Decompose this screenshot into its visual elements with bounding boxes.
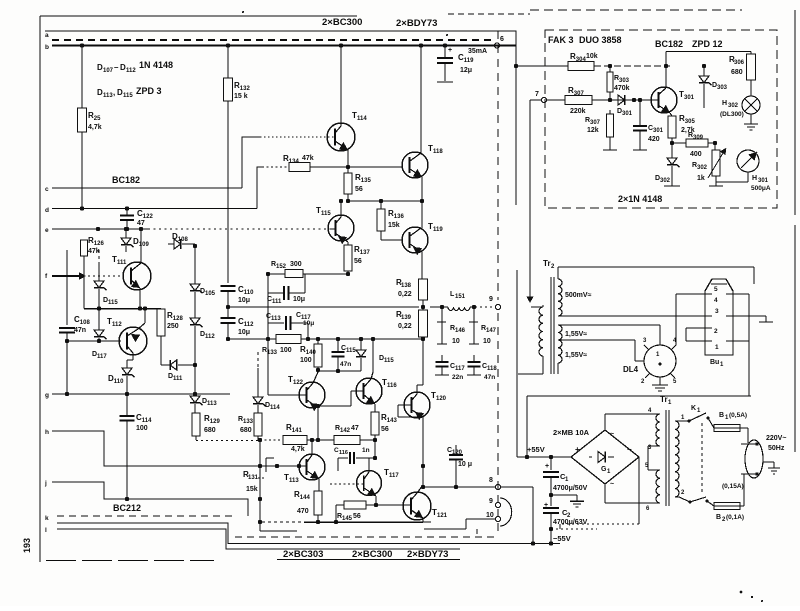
svg-text:470k: 470k bbox=[614, 85, 630, 92]
svg-text:Bu: Bu bbox=[710, 359, 719, 366]
svg-text:10: 10 bbox=[483, 338, 491, 345]
svg-text:112: 112 bbox=[126, 68, 136, 74]
label Tr2 bbox=[543, 259, 555, 270]
svg-text:680: 680 bbox=[204, 427, 216, 434]
svg-text:0,22: 0,22 bbox=[398, 323, 412, 330]
svg-text:470: 470 bbox=[297, 508, 309, 515]
wire row c bbox=[52, 187, 242, 189]
bridge rectifier bbox=[553, 428, 639, 484]
svg-text:680: 680 bbox=[731, 69, 743, 76]
svg-text:47n: 47n bbox=[340, 361, 351, 368]
psu mid ground bbox=[551, 495, 584, 507]
text zener equivalence bbox=[97, 86, 162, 99]
diode D111 bbox=[161, 352, 197, 382]
row label d bbox=[45, 207, 49, 214]
svg-text:12μ: 12μ bbox=[460, 67, 472, 74]
svg-text:j: j bbox=[44, 480, 47, 487]
svg-text:h: h bbox=[45, 429, 49, 436]
zener D109 bbox=[121, 227, 149, 252]
wire R304 right bbox=[594, 64, 670, 68]
node 9 circle jack bbox=[489, 498, 501, 508]
wire row j bbox=[52, 482, 248, 516]
label 2xBDY73 top bbox=[396, 18, 437, 29]
svg-text:56: 56 bbox=[353, 513, 361, 520]
svg-text:~: ~ bbox=[610, 481, 614, 488]
lamp H302 ground bbox=[744, 114, 758, 130]
wire row k2 bbox=[57, 523, 560, 544]
resistor R135 bbox=[344, 167, 371, 203]
svg-text:2×BC303: 2×BC303 bbox=[283, 549, 323, 560]
transformer Tr2 secondary2 bbox=[558, 325, 562, 363]
svg-text:10μ: 10μ bbox=[238, 297, 250, 304]
label 155V a bbox=[565, 331, 587, 338]
svg-text:k: k bbox=[45, 515, 49, 522]
node 8 circle bbox=[495, 484, 500, 489]
wire T112 collector down bbox=[127, 359, 133, 361]
transistor T117b bbox=[357, 468, 400, 496]
transistor T114 leads bbox=[260, 113, 348, 150]
svg-text:(0,1A): (0,1A) bbox=[726, 514, 744, 521]
svg-text:56: 56 bbox=[355, 186, 363, 193]
svg-text:111: 111 bbox=[173, 376, 183, 382]
zener D302 bbox=[655, 143, 680, 186]
transistor T113b leads bbox=[297, 438, 319, 479]
wire Bu pin5 wire bbox=[676, 294, 698, 345]
wire T120 base bbox=[398, 405, 423, 417]
svg-text:FAK 3: FAK 3 bbox=[548, 35, 574, 45]
transistor T118 bbox=[402, 144, 443, 178]
svg-text:4700μ/63V: 4700μ/63V bbox=[553, 519, 588, 526]
text underline bbox=[277, 559, 460, 561]
svg-text:2×1N 4148: 2×1N 4148 bbox=[618, 194, 662, 204]
wire node10 bbox=[424, 519, 495, 529]
svg-text:+: + bbox=[448, 47, 452, 54]
wire y339 rail bbox=[228, 337, 276, 341]
switch K1 bbox=[679, 405, 710, 423]
resistor R309 bbox=[686, 132, 717, 158]
transistor T112 bbox=[107, 317, 147, 355]
svg-text:H: H bbox=[722, 100, 727, 107]
capacitor C116 bbox=[334, 440, 377, 471]
dashed fold line bbox=[497, 31, 499, 534]
resistor R144 bbox=[294, 490, 322, 524]
svg-text:400: 400 bbox=[690, 151, 702, 158]
diode D301 bbox=[614, 95, 652, 117]
resistor R308 bbox=[585, 110, 617, 150]
svg-text:7: 7 bbox=[535, 91, 539, 98]
svg-text:116: 116 bbox=[387, 383, 397, 389]
svg-text:2×MB 10A: 2×MB 10A bbox=[553, 428, 590, 437]
svg-text:115: 115 bbox=[321, 211, 331, 217]
wire R132 down long bbox=[227, 101, 229, 283]
capacitor C111 bbox=[267, 274, 305, 305]
svg-text:10: 10 bbox=[452, 338, 460, 345]
wire DL4 to bus bbox=[671, 345, 676, 350]
svg-text:4,7k: 4,7k bbox=[88, 124, 102, 131]
wire node7 bbox=[526, 100, 565, 303]
transistor T117b leads bbox=[330, 458, 376, 496]
row label c bbox=[45, 186, 49, 193]
svg-text:131: 131 bbox=[248, 475, 259, 481]
svg-text:113: 113 bbox=[103, 93, 113, 99]
transformer Tr1 core bbox=[666, 410, 669, 506]
row label f bbox=[45, 273, 48, 280]
row label g bbox=[45, 392, 49, 399]
svg-text:1N 4148: 1N 4148 bbox=[139, 60, 173, 70]
wire y307 output rail bbox=[228, 305, 425, 309]
svg-text:l: l bbox=[45, 527, 47, 534]
svg-text:2×BDY73: 2×BDY73 bbox=[396, 18, 437, 29]
capacitor C118 bbox=[467, 355, 497, 381]
svg-text:1,55V≈: 1,55V≈ bbox=[565, 352, 587, 359]
capacitor C114 bbox=[120, 394, 153, 501]
wire long y396 bbox=[527, 396, 751, 457]
svg-text:107: 107 bbox=[103, 68, 114, 74]
wire T121 collector bbox=[421, 417, 425, 489]
svg-text:47: 47 bbox=[351, 425, 359, 432]
wire +rail down bbox=[516, 66, 517, 457]
wire D-chain top bbox=[193, 244, 197, 284]
svg-text:147: 147 bbox=[486, 328, 497, 334]
resistor R132 bbox=[224, 78, 251, 101]
transformer Tr1 sec bottom bbox=[645, 463, 660, 512]
wire emitter bus bbox=[262, 521, 423, 523]
connector Bu label bbox=[710, 359, 724, 368]
wire feedback node bbox=[266, 272, 348, 276]
svg-text:111: 111 bbox=[117, 260, 127, 266]
svg-text:B: B bbox=[719, 412, 724, 419]
svg-text:117: 117 bbox=[97, 354, 107, 360]
svg-text:+55V: +55V bbox=[527, 445, 545, 454]
svg-text:9: 9 bbox=[489, 498, 493, 505]
wire f to T111 base bbox=[79, 272, 121, 280]
svg-text:142: 142 bbox=[340, 428, 351, 434]
wire row l bbox=[57, 529, 460, 549]
wire Tr2 top out bbox=[558, 267, 754, 277]
transformer Tr2 core bbox=[551, 277, 554, 374]
wire T118 emitter bbox=[420, 177, 424, 228]
transistor T122 leads bbox=[268, 372, 319, 411]
wire row d bbox=[52, 208, 257, 210]
capacitor C1 bbox=[543, 457, 588, 497]
svg-text:b: b bbox=[45, 44, 49, 51]
svg-text:15k: 15k bbox=[388, 222, 400, 229]
wire Tr2 tap1 bbox=[558, 315, 698, 317]
svg-text:35mA: 35mA bbox=[468, 48, 487, 55]
transistor T121 bbox=[403, 492, 448, 520]
svg-text:302: 302 bbox=[660, 178, 671, 184]
svg-text:BC182: BC182 bbox=[655, 39, 683, 49]
svg-text:10μ: 10μ bbox=[238, 329, 250, 336]
svg-text:9: 9 bbox=[489, 296, 493, 303]
potentiometer R302 bbox=[692, 143, 726, 186]
svg-text:(DL300): (DL300) bbox=[720, 111, 744, 118]
wire y201 bbox=[348, 200, 422, 202]
capacitor C112 bbox=[221, 317, 255, 341]
wire row g bbox=[52, 393, 230, 395]
wire x260 vertical bbox=[258, 440, 297, 531]
svg-text:113: 113 bbox=[207, 401, 217, 407]
svg-text:1,55V≈: 1,55V≈ bbox=[565, 331, 587, 338]
svg-text:0,22: 0,22 bbox=[398, 291, 412, 298]
label +55V bbox=[527, 445, 545, 454]
label 220V bbox=[766, 435, 786, 452]
wire D112 down bbox=[194, 340, 196, 396]
resistor R129 bbox=[192, 413, 220, 440]
svg-text:120: 120 bbox=[452, 450, 463, 456]
connector Bu pins bbox=[698, 284, 755, 351]
label Tr1 bbox=[660, 395, 672, 406]
svg-text:116: 116 bbox=[339, 450, 348, 456]
capacitor C122 bbox=[120, 206, 153, 231]
svg-text:112: 112 bbox=[112, 322, 122, 328]
svg-text:B: B bbox=[716, 514, 721, 521]
transistor T301 leads bbox=[652, 64, 670, 113]
svg-text:500μA: 500μA bbox=[751, 185, 771, 192]
wire bridge minus dotted bbox=[551, 528, 597, 530]
resistor R142 bbox=[334, 425, 375, 445]
lamp H302 bbox=[720, 96, 760, 118]
mains plug bbox=[741, 440, 763, 478]
svg-text:g: g bbox=[45, 392, 49, 399]
transistor T114 bbox=[327, 111, 367, 151]
svg-text:BC212: BC212 bbox=[113, 503, 141, 513]
svg-text:DUO 3858: DUO 3858 bbox=[579, 35, 622, 45]
resistor R303 bbox=[607, 66, 630, 102]
transistor T120 leads bbox=[404, 340, 424, 420]
svg-text:119: 119 bbox=[433, 227, 443, 233]
svg-text:15 k: 15 k bbox=[234, 93, 248, 100]
capacitor C120 bbox=[447, 445, 472, 489]
inductor L151 bbox=[430, 291, 495, 311]
svg-text:50Hz: 50Hz bbox=[768, 445, 785, 452]
svg-text:307: 307 bbox=[590, 120, 601, 126]
label BC182 bbox=[112, 175, 140, 185]
svg-text:145: 145 bbox=[342, 516, 353, 522]
svg-text:420: 420 bbox=[648, 136, 660, 143]
bridge plus minus bbox=[575, 431, 632, 488]
wire base bus T118 bbox=[348, 166, 403, 168]
svg-text:302: 302 bbox=[697, 165, 708, 171]
svg-text:309: 309 bbox=[693, 135, 704, 141]
svg-text:56: 56 bbox=[354, 258, 362, 265]
svg-text:Tr: Tr bbox=[660, 395, 668, 404]
resistor R137 bbox=[344, 242, 370, 276]
scan specks bbox=[242, 11, 763, 602]
svg-text:e: e bbox=[45, 227, 49, 234]
svg-text:22n: 22n bbox=[452, 374, 463, 381]
svg-text:+: + bbox=[545, 463, 549, 470]
svg-text:6: 6 bbox=[500, 36, 504, 43]
node 7 circle bbox=[535, 91, 547, 103]
svg-text:10 μ: 10 μ bbox=[458, 461, 472, 468]
label BC212 bbox=[113, 503, 141, 513]
connector Bu outline bbox=[705, 279, 733, 355]
svg-text:ZPD 12: ZPD 12 bbox=[692, 39, 723, 49]
svg-text:115: 115 bbox=[108, 300, 118, 306]
resistor R134 bbox=[262, 154, 348, 172]
svg-text:(0,5A): (0,5A) bbox=[729, 412, 747, 419]
wire c riser bbox=[242, 137, 260, 188]
wire R132 top bbox=[226, 43, 230, 78]
svg-text:680: 680 bbox=[240, 427, 252, 434]
node 9 mid circle bbox=[489, 296, 501, 310]
wire row f terminal bbox=[52, 275, 80, 277]
svg-text:117: 117 bbox=[455, 366, 465, 372]
svg-text:138: 138 bbox=[401, 283, 412, 289]
svg-text:47n: 47n bbox=[74, 327, 86, 334]
svg-text:47k: 47k bbox=[88, 248, 100, 255]
svg-text:4,7k: 4,7k bbox=[291, 446, 305, 453]
resistor R145 bbox=[334, 501, 404, 524]
meter box dashed bbox=[545, 30, 777, 208]
zener D112 bbox=[190, 318, 215, 340]
svg-text:151: 151 bbox=[455, 294, 466, 300]
svg-text:2×BC300: 2×BC300 bbox=[322, 17, 362, 28]
wire Bu right side bbox=[727, 267, 773, 341]
wire T114 collector bbox=[339, 43, 343, 113]
row label l bbox=[45, 527, 47, 534]
resistor R146 bbox=[437, 305, 466, 345]
resistor R147 bbox=[469, 305, 497, 345]
svg-text:306: 306 bbox=[734, 60, 745, 66]
label 2xBC303 bottom bbox=[283, 549, 323, 560]
wire row b bbox=[52, 44, 516, 46]
svg-text:100: 100 bbox=[280, 347, 292, 354]
svg-text:100: 100 bbox=[300, 357, 312, 364]
capacitor C2 bbox=[543, 495, 588, 531]
row label a bbox=[45, 32, 49, 39]
resistor R133b bbox=[238, 405, 262, 440]
svg-text:146: 146 bbox=[455, 328, 466, 334]
svg-text:−55V: −55V bbox=[553, 534, 571, 543]
wire row k dashed bbox=[57, 516, 497, 537]
wire Tr2 tap2 bbox=[558, 325, 660, 343]
wire T114 emitter bbox=[346, 150, 350, 169]
wire node8 to rail bbox=[501, 487, 535, 546]
resistor R307 bbox=[565, 86, 650, 115]
row label b bbox=[45, 44, 49, 51]
wire R25 bottom bbox=[80, 132, 84, 211]
svg-text:300: 300 bbox=[290, 261, 302, 268]
tube DL4 bbox=[623, 345, 676, 377]
svg-text:111: 111 bbox=[272, 299, 282, 305]
inner top line bbox=[45, 31, 516, 46]
svg-text:301: 301 bbox=[758, 178, 769, 184]
svg-text:8: 8 bbox=[489, 477, 493, 484]
wire T121 emitter bbox=[423, 518, 431, 522]
svg-text:115: 115 bbox=[346, 348, 356, 354]
resistor R152 bbox=[271, 261, 303, 278]
wire row h bbox=[52, 431, 299, 468]
transistor T116 bbox=[356, 378, 397, 404]
svg-text:301: 301 bbox=[653, 128, 664, 134]
svg-text:3: 3 bbox=[715, 308, 719, 315]
wire T111 collector bbox=[139, 227, 143, 250]
svg-text:1k: 1k bbox=[697, 175, 705, 182]
transformer Tr1 primary bbox=[675, 415, 685, 497]
capacitor C117 bbox=[435, 355, 465, 381]
svg-text:56: 56 bbox=[381, 426, 389, 433]
resistor R139 bbox=[396, 310, 428, 341]
transistor T113b bbox=[284, 454, 325, 484]
svg-text:114: 114 bbox=[357, 116, 367, 122]
svg-text:2: 2 bbox=[714, 328, 718, 335]
fuse B1 bbox=[708, 412, 748, 443]
wire Bu pin2 wire bbox=[686, 328, 698, 341]
resistor R133 bbox=[262, 335, 423, 357]
bridge diode symbol bbox=[589, 452, 614, 476]
transistor T119 bbox=[402, 222, 443, 253]
wire b to +rail bbox=[500, 46, 518, 69]
wire node6 to R304 bbox=[516, 65, 568, 67]
label 155V b bbox=[565, 352, 587, 359]
resistor R128 bbox=[157, 309, 183, 352]
label 2xBDY73 bottom bbox=[407, 549, 448, 560]
svg-text:,: , bbox=[113, 88, 115, 97]
svg-text:301: 301 bbox=[684, 95, 695, 101]
svg-text:113: 113 bbox=[289, 478, 299, 484]
transistor T111 leads bbox=[131, 250, 141, 309]
svg-text:220k: 220k bbox=[570, 108, 586, 115]
label 015A bbox=[722, 483, 744, 490]
svg-text:ZPD 3: ZPD 3 bbox=[136, 86, 162, 96]
svg-text:47n: 47n bbox=[484, 374, 495, 381]
label FAK3 DUO3858 bbox=[548, 35, 622, 45]
label 500mV bbox=[565, 292, 592, 299]
svg-text:152: 152 bbox=[276, 264, 287, 270]
svg-text:+: + bbox=[575, 445, 580, 454]
wire emitter rail y308 bbox=[84, 306, 161, 310]
switch K1 dashed link bbox=[701, 423, 703, 495]
svg-text:113: 113 bbox=[271, 316, 281, 322]
border frame top solid bbox=[40, 15, 357, 17]
resistor R126 bbox=[81, 236, 105, 309]
border frame top dashed bbox=[448, 10, 742, 14]
label 2x1N4148 in box bbox=[618, 194, 662, 204]
zener D113 bbox=[190, 392, 217, 413]
resistor R305 bbox=[668, 113, 695, 145]
svg-text:10μ: 10μ bbox=[293, 296, 305, 303]
svg-text:112: 112 bbox=[205, 334, 215, 340]
wire R128 top bbox=[160, 308, 162, 311]
zener D110 bbox=[108, 360, 135, 396]
svg-text:12k: 12k bbox=[587, 127, 599, 134]
wire +rail to bridge bbox=[517, 455, 571, 459]
label -55V bbox=[553, 534, 571, 543]
svg-text:−: − bbox=[627, 445, 632, 454]
label 2xBC300 bottom bbox=[352, 549, 392, 560]
resistor R143 bbox=[371, 404, 397, 442]
mains ground bbox=[763, 462, 780, 474]
diode D108 bbox=[168, 232, 195, 249]
svg-text:120: 120 bbox=[436, 396, 447, 402]
wire R131 area bbox=[243, 458, 274, 493]
svg-text:47k: 47k bbox=[302, 155, 314, 162]
svg-text:193: 193 bbox=[22, 538, 32, 553]
transformer Tr1 sec top bbox=[648, 408, 660, 451]
wire fb down bbox=[267, 274, 269, 395]
resistor R306 bbox=[729, 54, 756, 96]
svg-text:2×BC300: 2×BC300 bbox=[352, 549, 392, 560]
node 6 circle bbox=[494, 36, 504, 48]
capacitor C110 bbox=[221, 285, 255, 318]
resistor R141 bbox=[283, 423, 334, 453]
zener D117 bbox=[92, 309, 107, 361]
label 35mA bbox=[468, 48, 487, 55]
svg-text:115: 115 bbox=[123, 93, 133, 99]
svg-text:301: 301 bbox=[622, 111, 633, 117]
